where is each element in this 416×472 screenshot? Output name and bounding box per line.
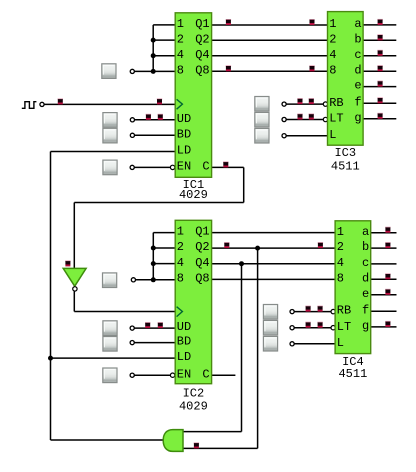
- wire S5 to IC3 RB pin: [286, 103, 323, 105]
- svg-text:4029: 4029: [179, 399, 208, 413]
- wire LD feedback to IC1 LD pin: [51, 151, 176, 153]
- terminal S8: [131, 278, 135, 282]
- wire IC1 preset bus vertical: [152, 25, 154, 72]
- svg-text:f: f: [354, 95, 361, 109]
- wire EN button to IC1 EN pin: [134, 166, 170, 168]
- wire IC3 output g: [363, 118, 396, 120]
- AND gate U6: [163, 430, 183, 452]
- wire IC3 output d: [363, 70, 396, 72]
- wire S14 to IC4 L pin: [294, 343, 335, 345]
- switch S10 BD IC2: [103, 337, 117, 352]
- switch S12 RB IC4: [263, 305, 277, 320]
- wire feedback vertical: [50, 152, 52, 441]
- svg-text:4511: 4511: [331, 159, 360, 173]
- svg-text:b: b: [362, 240, 369, 254]
- terminal S5: [282, 102, 286, 106]
- svg-text:L: L: [337, 336, 344, 350]
- wire IC3 output a: [363, 24, 396, 26]
- wire IC2 preset bus vertical: [152, 233, 154, 280]
- wire inverter input vertical: [73, 203, 75, 269]
- svg-text:f: f: [362, 303, 369, 317]
- node junction bus2 pin2: [151, 246, 156, 251]
- svg-text:UD: UD: [177, 112, 191, 126]
- clock source CLK1: [22, 102, 37, 109]
- wire IC1 Q1 to IC3 pin 1: [212, 24, 328, 26]
- svg-text:IC3: IC3: [334, 146, 356, 160]
- wire AND tap from Q4 vertical: [241, 264, 243, 432]
- indicator out4 b: [385, 242, 390, 248]
- svg-text:2: 2: [177, 240, 184, 254]
- indicator out4 a: [385, 227, 390, 233]
- svg-text:RB: RB: [337, 304, 351, 318]
- svg-text:4029: 4029: [179, 188, 208, 202]
- switch S3 BD IC1: [103, 128, 117, 143]
- switch S1 preset IC1: [102, 64, 116, 79]
- node junction LD feedback: [48, 356, 53, 361]
- svg-text:1: 1: [329, 17, 336, 31]
- indicator Q1 left: [226, 19, 231, 25]
- indicator Q1 right: [309, 19, 314, 25]
- wire LD feedback to IC2 LD pin: [51, 357, 176, 359]
- svg-text:EN: EN: [177, 160, 191, 174]
- svg-text:2: 2: [329, 32, 336, 46]
- svg-text:IC2: IC2: [183, 386, 205, 400]
- svg-text:8: 8: [177, 272, 184, 286]
- terminal S7: [282, 134, 286, 138]
- svg-text:d: d: [354, 63, 361, 77]
- terminal S4: [130, 165, 134, 169]
- svg-text:LT: LT: [329, 112, 343, 126]
- wire clock to IC1 clock pin: [44, 103, 175, 105]
- wire C1 return horizontal: [74, 202, 243, 204]
- svg-text:e: e: [354, 79, 361, 93]
- wire IC2 C stub: [212, 374, 236, 376]
- terminal S11: [130, 373, 134, 377]
- wire IC1 C output: [212, 166, 244, 168]
- indicator UD1 left: [146, 114, 151, 120]
- bubble IC3 RB: [323, 102, 327, 106]
- node junction bus1 pin4: [151, 53, 156, 58]
- wire IC3 output c: [363, 55, 396, 57]
- indicator inverter input: [65, 260, 70, 266]
- wire bus branch to IC2 pin 1: [153, 232, 175, 234]
- svg-text:L: L: [329, 128, 336, 142]
- svg-text:8: 8: [177, 63, 184, 77]
- terminal S3: [130, 133, 134, 137]
- indicator out3 a: [377, 19, 382, 25]
- wire BD button to IC2 BD pin: [135, 342, 176, 344]
- switch S2 UD IC1: [103, 113, 117, 128]
- svg-text:EN: EN: [177, 367, 191, 381]
- wire EN button to IC2 EN pin: [134, 374, 170, 376]
- wire IC2 Q4 to IC4 pin 4: [212, 263, 336, 265]
- IC4 4511 decoder body: [335, 221, 371, 354]
- wire IC4 output b: [371, 247, 397, 249]
- svg-text:BD: BD: [177, 127, 191, 141]
- wire IC1 Q8 to IC3 pin 8: [212, 70, 328, 72]
- indicator C1: [223, 161, 228, 167]
- wire IC3 output f: [363, 102, 396, 104]
- terminal S14: [290, 342, 294, 346]
- terminal clock output: [40, 102, 44, 106]
- wire preset button to IC1 pin 8: [135, 70, 176, 72]
- indicator out4 g: [385, 321, 390, 327]
- svg-text:Q8: Q8: [195, 63, 209, 77]
- node junction bus1 pin8: [151, 69, 156, 74]
- svg-text:UD: UD: [177, 320, 191, 334]
- svg-text:RB: RB: [329, 96, 343, 110]
- indicator LT4 left: [305, 322, 310, 328]
- node junction bus2 pin8: [151, 277, 156, 282]
- svg-text:c: c: [354, 48, 361, 62]
- terminal S1: [130, 69, 134, 73]
- IC3 4511 decoder body: [328, 12, 364, 146]
- svg-text:b: b: [354, 32, 361, 46]
- switch S7 L IC3: [255, 128, 269, 143]
- bubble IC3 LT: [323, 117, 327, 121]
- svg-text:a: a: [354, 17, 361, 31]
- wire UD button to IC1 UD pin: [135, 119, 176, 121]
- indicator clock wire left: [58, 98, 63, 104]
- wire bus branch to IC1 pin 1: [153, 24, 175, 26]
- wire IC2 Q2 to IC4 pin 2: [212, 247, 336, 249]
- indicator UD1 right: [158, 114, 163, 120]
- wire AND tap from Q2 vertical: [257, 248, 259, 448]
- wire IC4 output d: [371, 278, 397, 280]
- wire UD button to IC2 UD pin: [135, 327, 176, 329]
- svg-text:1: 1: [177, 225, 184, 239]
- IC2 clock chevron: [177, 307, 183, 317]
- wire bus branch to IC2 pin 4: [153, 263, 175, 265]
- svg-text:Q1: Q1: [195, 17, 209, 31]
- indicator RB4 left: [305, 306, 310, 312]
- node junction bus1 pin2: [151, 38, 156, 43]
- svg-text:g: g: [362, 319, 369, 333]
- wire bus branch to IC2 pin 2: [153, 247, 175, 249]
- svg-text:BD: BD: [177, 335, 191, 349]
- wire IC4 output g: [371, 326, 397, 328]
- svg-text:e: e: [362, 287, 369, 301]
- terminal S9: [130, 326, 134, 330]
- node junction Q4 tap: [239, 261, 244, 266]
- terminal S6: [282, 117, 286, 121]
- svg-text:4: 4: [337, 256, 344, 270]
- wire IC4 output a: [371, 232, 397, 234]
- wire inverter output vertical: [73, 291, 75, 311]
- wire AND lower input horizontal: [183, 447, 258, 449]
- switch S13 LT IC4: [263, 320, 277, 335]
- wire IC4 output e: [371, 294, 397, 296]
- wire S7 to IC3 L pin: [286, 135, 327, 137]
- node junction bus2 pin4: [151, 261, 156, 266]
- indicator out3 d: [377, 65, 382, 71]
- indicator Q2b left: [224, 242, 229, 248]
- indicator UD2 right: [158, 322, 163, 328]
- wire bus branch to IC1 pin 2: [153, 39, 175, 41]
- svg-text:d: d: [362, 271, 369, 285]
- wire IC2 Q1 to IC4 pin 1: [212, 232, 336, 234]
- wire S12 to IC4 RB pin: [294, 311, 331, 313]
- svg-text:4: 4: [177, 48, 184, 62]
- svg-text:LD: LD: [177, 144, 191, 158]
- svg-text:Q1: Q1: [195, 225, 209, 239]
- terminal S10: [130, 341, 134, 345]
- wire inverter output to IC2 clock pin: [74, 311, 175, 313]
- svg-text:a: a: [362, 225, 369, 239]
- wire preset button to IC2 pin 8: [136, 279, 176, 281]
- indicator out3 b: [377, 34, 382, 40]
- switch S6 LT IC3: [255, 112, 269, 127]
- bubble IC1 EN: [170, 165, 174, 169]
- node junction Q2 tap: [255, 246, 260, 251]
- indicator Q8 left: [226, 65, 231, 71]
- svg-text:C: C: [202, 160, 209, 174]
- svg-text:Q4: Q4: [195, 256, 209, 270]
- indicator out4 e: [385, 289, 390, 295]
- svg-text:LT: LT: [337, 320, 351, 334]
- indicator Q8 right: [309, 65, 314, 71]
- wire AND output to feedback: [51, 439, 166, 441]
- switch S14 L IC4: [263, 336, 277, 351]
- wire IC3 output e: [363, 86, 396, 88]
- wire IC4 output f: [371, 310, 397, 312]
- svg-text:2: 2: [177, 32, 184, 46]
- svg-text:Q8: Q8: [195, 272, 209, 286]
- indicator RB3 right: [309, 98, 314, 104]
- wire IC2 Q8 to IC4 pin 8: [212, 278, 336, 280]
- IC1 4029 counter body: [175, 13, 211, 178]
- indicator UD2 left: [145, 322, 150, 328]
- svg-text:8: 8: [329, 63, 336, 77]
- svg-text:4: 4: [177, 256, 184, 270]
- indicator out4 d: [385, 273, 390, 279]
- indicator clock wire right: [157, 98, 162, 104]
- IC2 4029 counter body: [175, 220, 211, 383]
- bubble IC2 EN: [170, 373, 174, 377]
- wire S13 to IC4 LT pin: [294, 327, 331, 329]
- svg-text:Q2: Q2: [195, 240, 209, 254]
- wire IC1 Q2 to IC3 pin 2: [212, 39, 328, 41]
- svg-text:Q2: Q2: [195, 32, 209, 46]
- svg-text:4511: 4511: [338, 367, 367, 381]
- svg-text:C: C: [202, 367, 209, 381]
- svg-text:8: 8: [337, 271, 344, 285]
- indicator LT3 right: [309, 114, 314, 120]
- indicator out3 c: [377, 50, 382, 56]
- bubble IC4 LT: [331, 326, 335, 330]
- svg-text:g: g: [354, 111, 361, 125]
- indicator LT4 right: [317, 322, 322, 328]
- wire C1 vertical down: [243, 167, 245, 202]
- svg-text:4: 4: [329, 48, 336, 62]
- terminal S2: [130, 118, 134, 122]
- switch S5 RB IC3: [255, 97, 269, 112]
- indicator AND lower input: [194, 442, 199, 448]
- switch S9 UD IC2: [103, 321, 117, 336]
- svg-text:2: 2: [337, 240, 344, 254]
- bubble IC4 RB: [331, 309, 335, 313]
- inverter U5 NOT gate: [63, 268, 86, 286]
- wire S6 to IC3 LT pin: [286, 119, 323, 121]
- indicator out3 g: [377, 113, 382, 119]
- svg-text:1: 1: [177, 17, 184, 31]
- terminal S12: [290, 310, 294, 314]
- indicator out3 f: [377, 97, 382, 103]
- IC1 clock chevron: [177, 99, 183, 109]
- indicator out3 e: [377, 81, 382, 87]
- wire IC3 output b: [363, 39, 396, 41]
- switch S8 preset IC2: [103, 273, 117, 288]
- switch S11 EN IC2: [103, 368, 117, 383]
- wire IC4 output c: [371, 263, 397, 265]
- bubble inverter output: [73, 287, 77, 291]
- wire bus branch to IC1 pin 4: [153, 55, 175, 57]
- wire BD button to IC1 BD pin: [135, 134, 176, 136]
- svg-text:c: c: [362, 256, 369, 270]
- indicator LT3 left: [297, 114, 302, 120]
- wire IC1 Q4 to IC3 pin 4: [212, 55, 328, 57]
- indicator RB4 right: [317, 306, 322, 312]
- wire AND upper input horizontal: [183, 431, 242, 433]
- indicator Q2b right: [318, 242, 323, 248]
- switch S4 EN IC1: [103, 160, 117, 175]
- svg-text:Q4: Q4: [195, 48, 209, 62]
- svg-text:1: 1: [337, 225, 344, 239]
- terminal S13: [290, 326, 294, 330]
- svg-text:LD: LD: [177, 350, 191, 364]
- indicator RB3 left: [297, 98, 302, 104]
